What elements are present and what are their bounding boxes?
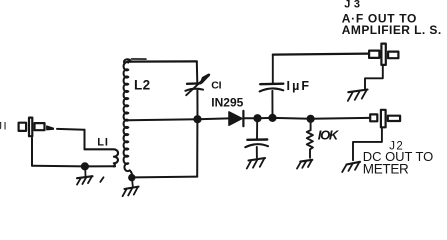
wire 1uF top to J3	[273, 54, 369, 55]
ground (J2)	[342, 162, 360, 172]
wire junction to diode anode	[198, 117, 230, 120]
svg-text:AMPLIFIER L. S.: AMPLIFIER L. S.	[342, 23, 441, 37]
wire artifact dash	[132, 58, 147, 60]
wire junction down	[196, 119, 198, 176]
svg-text:IN295: IN295	[211, 96, 243, 110]
wire diode to junctions	[243, 117, 257, 119]
inductor L1	[85, 149, 119, 166]
node junction J1-ground	[81, 162, 89, 170]
ground (10K)	[297, 160, 312, 169]
ground (J1 side)	[77, 168, 93, 185]
svg-text:CI: CI	[211, 79, 221, 91]
diode D1 1N295	[229, 111, 243, 126]
svg-text:L2: L2	[134, 78, 150, 93]
wire C1 bottom to junction	[196, 91, 198, 120]
wire J1 pin to corner	[57, 128, 85, 131]
inductor L2	[124, 59, 132, 173]
wire L2 top to C1 corner	[128, 60, 197, 62]
connector J2	[370, 110, 400, 128]
svg-text:METER: METER	[363, 161, 409, 176]
wire J3 to ground	[365, 66, 383, 89]
wire coil tap to junction (middle wire)	[129, 119, 198, 120]
wire bottom return to L2 ground	[135, 176, 198, 179]
tick mark	[100, 177, 103, 182]
node junction 10K	[307, 115, 315, 123]
svg-text:LI: LI	[97, 137, 108, 149]
resistor R1 10K	[307, 121, 313, 158]
ground (L2 bottom)	[123, 181, 139, 197]
wire bottom to ground junction	[32, 165, 85, 168]
wire between junctions	[258, 117, 273, 119]
wire corner down to L1	[84, 130, 86, 150]
svg-text:IOK: IOK	[318, 128, 340, 143]
svg-text:JI: JI	[0, 120, 7, 132]
ground (J3)	[348, 90, 368, 101]
connector J3	[369, 44, 398, 65]
node junction C1/tap	[193, 115, 201, 123]
ground (bypass cap)	[247, 158, 265, 169]
node junction bypass cap	[253, 114, 261, 122]
capacitor C1 (variable)	[185, 75, 209, 95]
wire J1 down lead	[31, 138, 33, 166]
svg-text:J3: J3	[344, 0, 360, 11]
capacitor bypass (unlabeled)	[245, 119, 268, 158]
wire corner down to C1	[196, 61, 199, 83]
wire to 10K junction	[273, 117, 311, 120]
wire J2 to ground	[353, 128, 382, 160]
node junction 1uF	[268, 114, 276, 122]
capacitor 1uF	[260, 55, 284, 118]
connector J1	[19, 118, 54, 137]
wire to J2	[311, 117, 369, 120]
node junction L2 bottom	[128, 174, 135, 181]
svg-text:IµF: IµF	[287, 79, 310, 93]
wire junction to L1 bottom	[85, 165, 115, 167]
